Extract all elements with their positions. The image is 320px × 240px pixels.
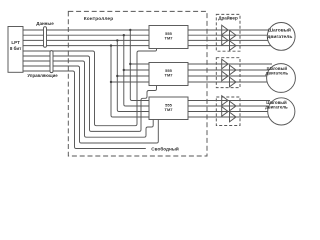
wire U3 output 4 to motor M3 <box>188 116 270 118</box>
wire control C3 to latch U3 clock <box>23 61 153 137</box>
wire branch to U2 input 2 <box>124 69 149 71</box>
svg-text:ТМ7: ТМ7 <box>165 107 174 112</box>
svg-text:двигатель: двигатель <box>267 35 292 40</box>
junction dot data line 2 tap <box>123 34 125 36</box>
buffer B2 triangle <box>230 65 237 75</box>
svg-text:Драйвер: Драйвер <box>218 15 238 21</box>
svg-text:двигатель: двигатель <box>265 105 288 110</box>
buffer C3 triangle <box>222 107 228 117</box>
svg-text:Шаговый: Шаговый <box>268 26 291 33</box>
wire data D3 <box>23 45 149 47</box>
stepper motor M2 circle <box>267 64 296 93</box>
svg-text:Контроллер: Контроллер <box>84 16 113 22</box>
wire control C1 to latch U1 clock <box>23 49 157 126</box>
wire U1 output 3 to motor M1 <box>188 39 272 41</box>
junction dot data line 1 tap <box>129 29 131 31</box>
svg-text:Управляющие: Управляющие <box>27 73 58 78</box>
wire U3 output 1 to motor M3 <box>188 100 270 102</box>
wire control C5 spare <box>23 71 146 149</box>
junction dot U2 input 4 <box>110 81 112 83</box>
controller dashed box <box>68 11 207 156</box>
svg-text:LPT: LPT <box>11 40 20 45</box>
buffer B3 triangle <box>222 71 228 81</box>
buffer B4 triangle <box>230 77 237 87</box>
svg-text:Свободный: Свободный <box>151 146 179 152</box>
stepper motor M1 circle <box>267 23 295 51</box>
buffer C4 triangle <box>230 112 237 122</box>
junction dot U2 input 3 <box>116 75 118 77</box>
wire U3 output 2 to motor M3 <box>188 105 268 107</box>
latch U2 555TM7 box <box>149 63 188 86</box>
wire U2 output 4 to motor M2 <box>188 81 268 83</box>
wire data tap bus B to U2/U3 input 2 <box>124 35 149 106</box>
wire data D2 <box>23 39 149 41</box>
junction dot data line 3 tap <box>116 39 118 41</box>
wire U2 output 3 to motor M2 <box>188 75 268 77</box>
buffer C2 triangle <box>230 101 237 111</box>
wire U2 output 1 to motor M2 <box>188 63 272 65</box>
wire branch to U2 input 1 <box>130 63 149 65</box>
LPT port box <box>8 27 23 73</box>
driver box 1 dashed <box>216 14 240 51</box>
connector X2 control cable <box>50 51 53 73</box>
latch U1 555TM7 box <box>149 26 188 49</box>
wire data tap bus D to U2/U3 input 4 <box>111 46 149 117</box>
wire control C4 to latch U3 clock 2 <box>23 66 158 143</box>
latch U3 555TM7 box <box>149 97 188 120</box>
buffer B1 triangle <box>222 59 228 69</box>
wire U1 output 1 to motor M1 <box>188 29 272 31</box>
svg-text:двигатель: двигатель <box>266 71 289 76</box>
wire data D1 <box>23 34 149 36</box>
stepper motor M3 circle <box>268 98 295 125</box>
wire branch to U2 input 3 <box>117 75 149 77</box>
buffer A1 triangle <box>222 25 228 35</box>
buffer A4 triangle <box>230 41 237 51</box>
buffer C1 triangle <box>222 96 228 106</box>
wire U1 output 2 to motor M1 <box>188 34 272 36</box>
wire data tap bus A to U2/U3 input 1 <box>130 30 149 101</box>
svg-text:8 бит: 8 бит <box>10 45 22 51</box>
wire data D0 <box>23 29 149 31</box>
wire U1 output 4 to motor M1 <box>188 45 273 47</box>
svg-text:Данные: Данные <box>36 21 54 26</box>
driver box 2 dashed <box>216 58 240 88</box>
wire U3 output 3 to motor M3 <box>188 111 268 113</box>
junction dot data line 4 tap <box>110 44 112 46</box>
wire data tap bus C to U2/U3 input 3 <box>117 40 149 111</box>
wire control C2 to latch U2 clock <box>23 56 157 131</box>
wire branch to U2 input 4 <box>111 81 149 83</box>
svg-text:ТМ7: ТМ7 <box>165 35 174 40</box>
wire U2 output 2 to motor M2 <box>188 69 270 71</box>
connector X1 data cable <box>44 27 47 48</box>
driver box 3 dashed <box>216 97 240 126</box>
junction dot U2 input 1 <box>129 63 131 65</box>
buffer A3 triangle <box>222 36 228 46</box>
junction dot U2 input 2 <box>123 69 125 71</box>
svg-text:ТМ7: ТМ7 <box>165 72 174 77</box>
buffer A2 triangle <box>230 30 237 40</box>
